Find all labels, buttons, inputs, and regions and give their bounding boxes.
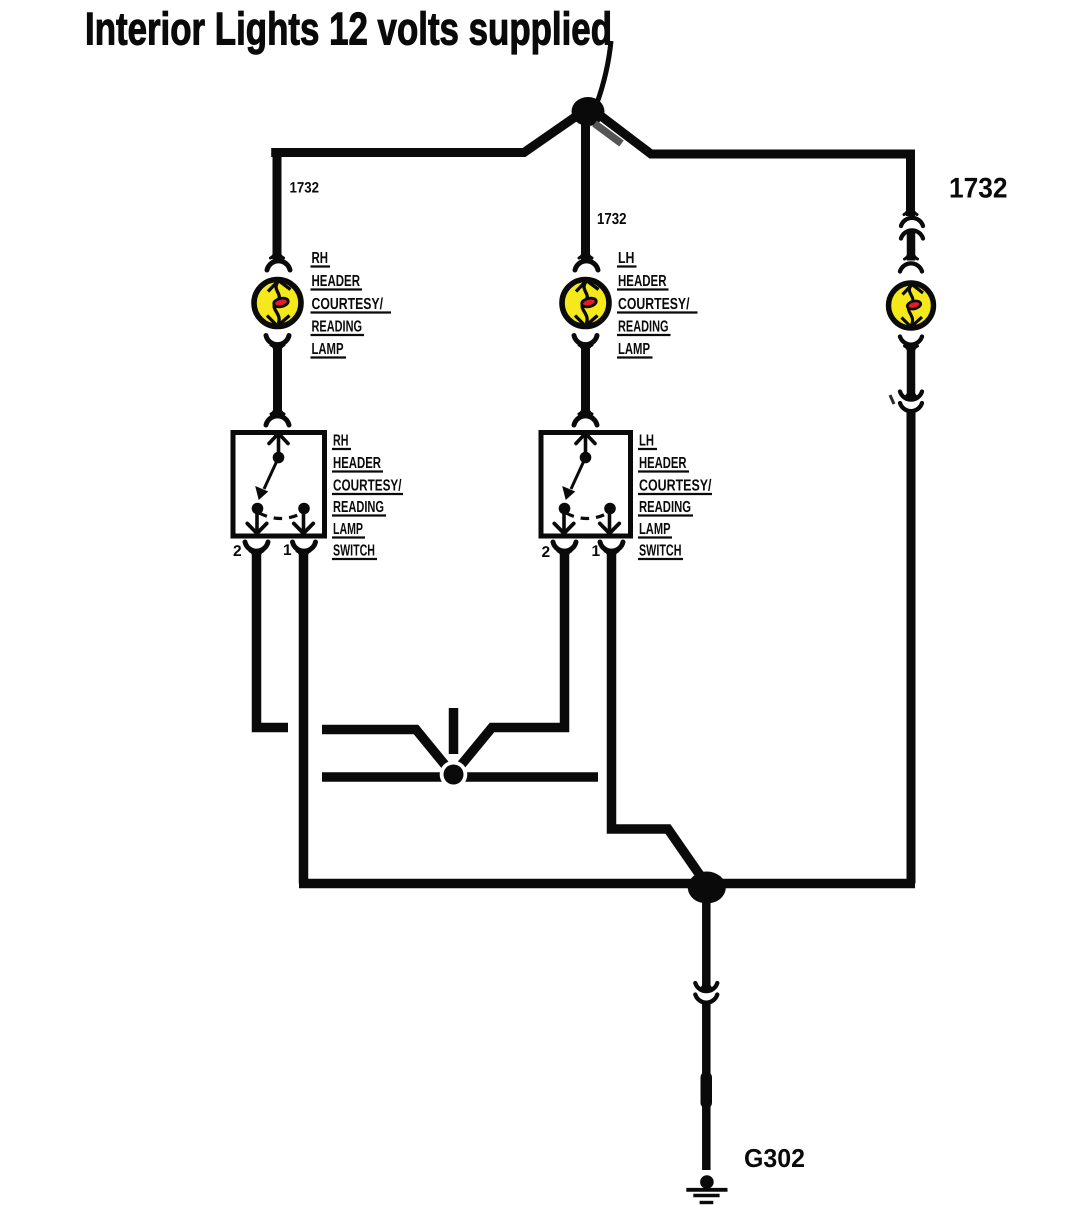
ground G302	[686, 1175, 727, 1202]
svg-text:READING: READING	[333, 499, 384, 516]
connector above right lamp	[900, 263, 922, 271]
stray mark	[890, 395, 894, 404]
svg-text:COURTESY/: COURTESY/	[618, 296, 690, 313]
wire: right branch long vertical to ground bus	[907, 411, 916, 884]
svg-text:LAMP: LAMP	[312, 341, 344, 358]
wire: RH switch pin 1 down to ground bus	[299, 550, 309, 884]
svg-text:HEADER: HEADER	[618, 273, 667, 290]
lamp RH labels	[312, 250, 384, 358]
svg-text:LAMP: LAMP	[639, 521, 671, 538]
splice dot	[444, 765, 464, 785]
wire: right branch vertical (top)	[906, 150, 915, 216]
wire: junction down to break	[702, 895, 711, 991]
wire bulge artifact	[701, 1072, 713, 1108]
wire: LH switch pin 1 down to ground junction	[612, 550, 705, 882]
wire: left branch vertical to lamp	[273, 148, 282, 253]
connector below right lamp	[900, 337, 922, 400]
break connector (right branch lower)	[900, 392, 922, 412]
break connector (ground wire)	[695, 983, 717, 1003]
connector above RH lamp	[267, 243, 290, 270]
svg-text:1732: 1732	[290, 180, 320, 197]
svg-text:COURTESY/: COURTESY/	[312, 296, 384, 313]
svg-text:Interior Lights 12 volts suppl: Interior Lights 12 volts supplied	[85, 3, 612, 55]
wire: splice left arm	[322, 730, 450, 772]
wire: ground bus bottom horizontal	[299, 879, 915, 889]
svg-text:HEADER: HEADER	[639, 455, 687, 472]
svg-text:COURTESY/: COURTESY/	[639, 478, 712, 495]
lever	[264, 458, 279, 490]
svg-text:READING: READING	[639, 499, 691, 516]
dashed throw arc	[259, 513, 302, 519]
wire: top-left run from node to left branch	[271, 115, 578, 153]
svg-text:HEADER: HEADER	[333, 455, 381, 472]
svg-text:2: 2	[233, 543, 242, 560]
lamp (right, unlabeled)	[889, 283, 934, 328]
switch RH labels	[333, 433, 402, 560]
svg-text:RH: RH	[333, 433, 349, 450]
svg-text:READING: READING	[312, 319, 363, 336]
svg-text:LAMP: LAMP	[618, 341, 650, 358]
connector below LH switch pin 2	[553, 542, 576, 551]
wire: top-right run from node to right branch	[597, 113, 915, 154]
lamp RH header courtesy/reading lamp	[254, 280, 301, 327]
junction: ground bus splice	[688, 872, 726, 904]
connector below RH lamp	[266, 336, 289, 417]
connector above LH lamp	[575, 243, 598, 270]
wire: feed S-curve from title into top node	[597, 41, 611, 103]
connector above RH switch	[266, 416, 289, 425]
switch RH header courtesy/reading lamp switch (box)	[233, 433, 325, 537]
lamp LH header courtesy/reading lamp	[562, 280, 609, 327]
wire: node arrow stub artifact	[595, 124, 622, 144]
wire: center drop from node	[581, 120, 590, 254]
svg-text:LH: LH	[639, 433, 654, 450]
svg-text:HEADER: HEADER	[312, 273, 361, 290]
svg-text:RH: RH	[312, 250, 329, 267]
svg-text:LAMP: LAMP	[333, 521, 363, 538]
wire: LH switch pin 2 down to splice arm	[457, 550, 565, 771]
svg-text:1732: 1732	[949, 173, 1008, 205]
terminal arrows down	[255, 513, 259, 531]
splice halo	[440, 761, 468, 789]
connector above LH switch	[574, 416, 597, 425]
svg-text:G302: G302	[744, 1143, 805, 1173]
svg-text:LH: LH	[618, 250, 635, 267]
wire: break to ground	[702, 1002, 711, 1170]
connector below RH switch pin 1	[293, 542, 316, 551]
connector below RH switch pin 2	[245, 542, 268, 551]
node: top splice	[572, 97, 605, 126]
wire: splice bus horizontal	[322, 772, 598, 782]
svg-text:1: 1	[283, 542, 292, 559]
switch LH labels	[639, 433, 712, 560]
throw dots	[252, 503, 264, 515]
switch LH header courtesy/reading lamp switch (box)	[541, 433, 631, 537]
break connector (right branch upper)	[901, 218, 923, 239]
svg-text:COURTESY/: COURTESY/	[333, 478, 402, 495]
wire: splice top stub	[449, 708, 459, 754]
svg-text:2: 2	[542, 544, 551, 561]
terminal arrow up	[277, 434, 281, 453]
lamp LH labels	[618, 250, 690, 358]
svg-text:SWITCH: SWITCH	[333, 543, 375, 560]
svg-text:1732: 1732	[597, 211, 627, 228]
wire: RH switch pin 2 down and right stub	[257, 550, 289, 728]
connector below LH lamp	[574, 336, 597, 417]
svg-text:READING: READING	[618, 319, 669, 336]
svg-text:SWITCH: SWITCH	[639, 543, 682, 560]
connector below LH switch pin 1	[600, 542, 623, 551]
